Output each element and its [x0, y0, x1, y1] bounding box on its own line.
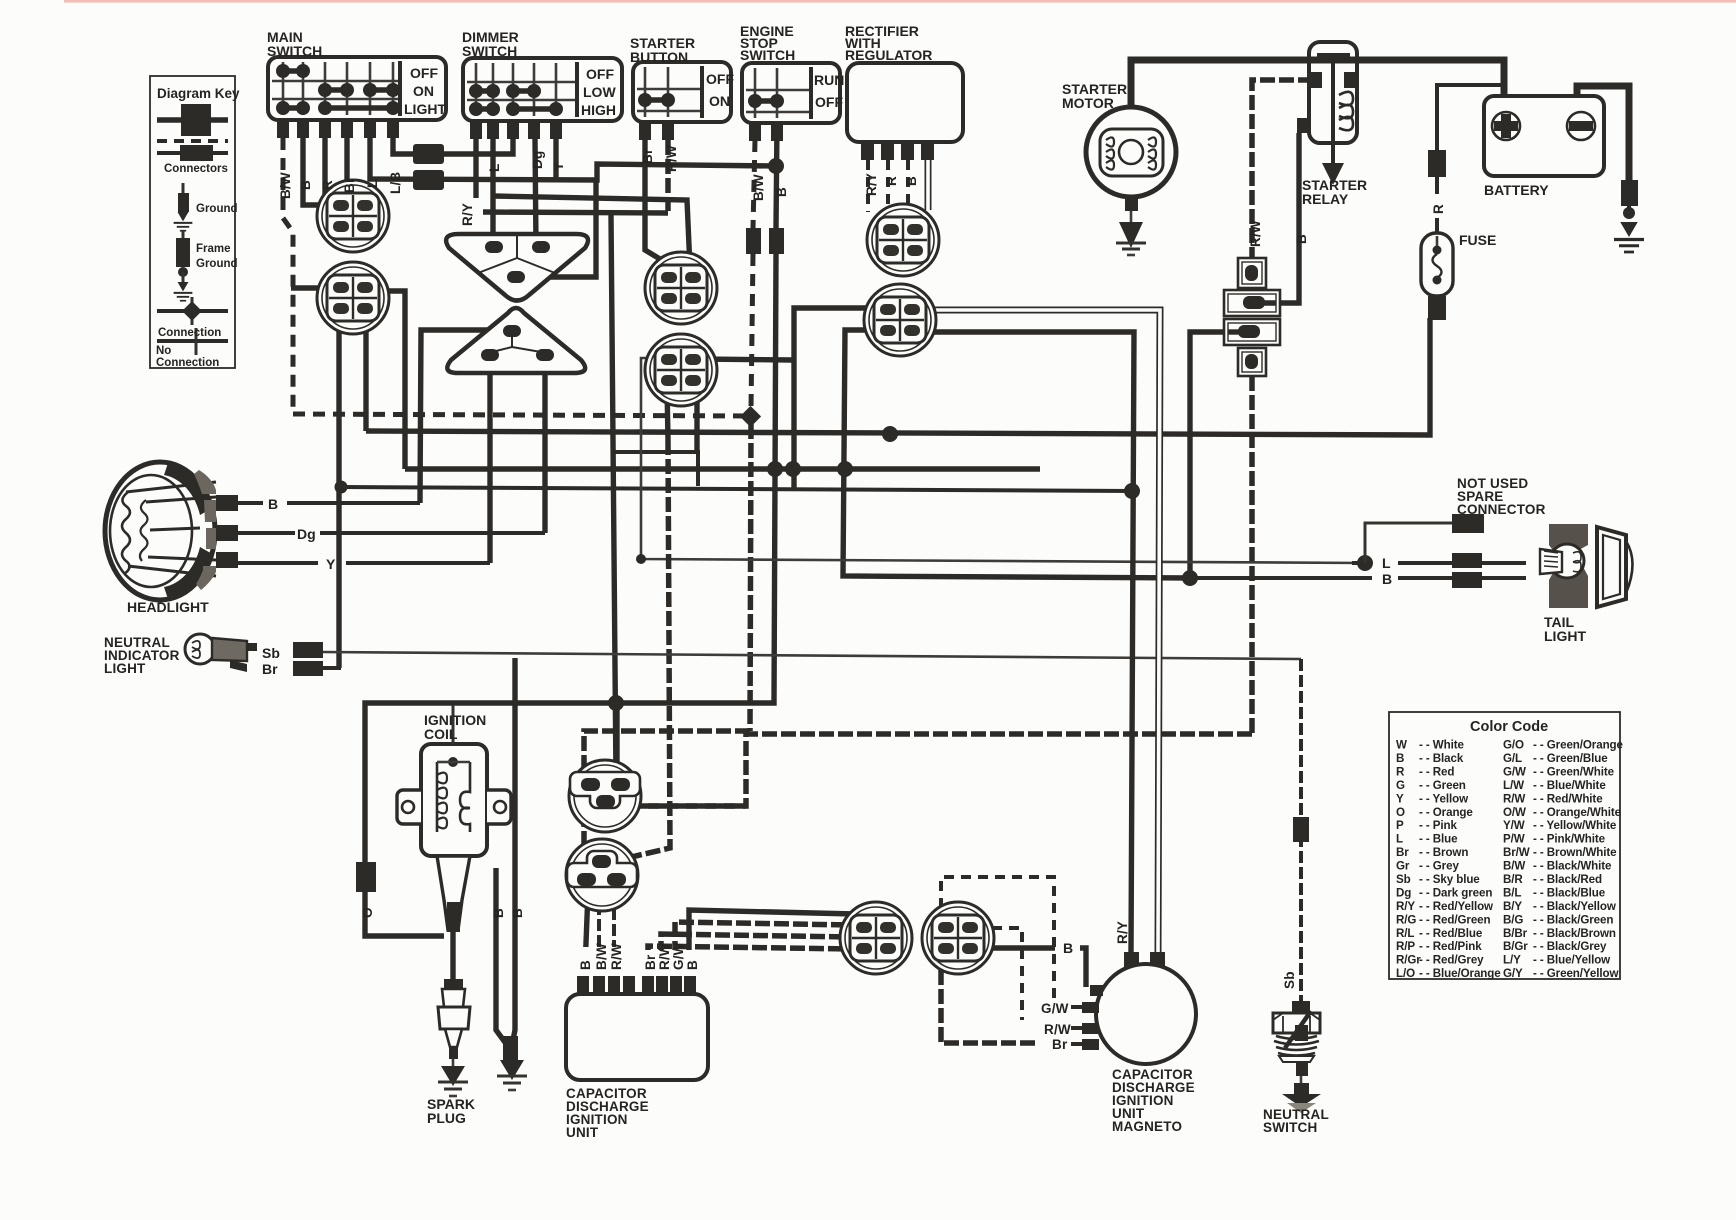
fuse lower connector	[1428, 296, 1446, 320]
svg-text:Y: Y	[551, 162, 566, 171]
wire magneto G/W dashed loop	[941, 877, 1054, 998]
svg-text:B/G: B/G	[1503, 913, 1523, 926]
svg-text:- - Green/Blue: - - Green/Blue	[1533, 752, 1608, 765]
inline connector L/B	[413, 144, 444, 164]
4-pin connector rectifier upper	[867, 204, 939, 276]
svg-text:O: O	[360, 907, 375, 918]
svg-text:- - Red: - - Red	[1419, 765, 1454, 778]
wire dimmer L down to triangle connector	[490, 139, 495, 247]
svg-text:Br: Br	[643, 954, 658, 970]
svg-text:Connection: Connection	[158, 327, 221, 339]
wire starter button R/W drop	[665, 140, 671, 211]
svg-text:- - Red/Yellow: - - Red/Yellow	[1419, 900, 1494, 913]
svg-text:- - Black/Grey: - - Black/Grey	[1533, 940, 1607, 953]
key frame ground symbol	[174, 230, 193, 301]
wire ignition coil O drop	[356, 862, 376, 892]
battery body	[1484, 96, 1604, 176]
wire spare connector feed	[1365, 523, 1452, 563]
magneto left stubs	[1082, 1002, 1099, 1013]
svg-text:Y/W: Y/W	[1503, 819, 1525, 832]
wire R/W dashed over and down to 3pin connector	[632, 734, 1252, 806]
4-pin connector center upper	[645, 252, 717, 324]
inline connector white top	[1150, 952, 1165, 968]
wire Br neutral light	[322, 666, 341, 670]
svg-text:- - Pink: - - Pink	[1419, 819, 1457, 832]
CDI stubs left group	[577, 976, 589, 994]
svg-text:B/Y: B/Y	[1503, 900, 1522, 913]
svg-text:R/W: R/W	[609, 943, 624, 970]
4-pin connector main switch upper	[317, 180, 389, 252]
wire 4pin BR riser to y452 jog	[694, 385, 699, 452]
junction dot L corner	[636, 554, 646, 564]
svg-text:HIGH: HIGH	[581, 102, 616, 118]
svg-text:SWITCH: SWITCH	[462, 43, 517, 59]
svg-text:L/B: L/B	[388, 172, 403, 194]
svg-text:R/Y: R/Y	[1115, 921, 1130, 944]
svg-text:- - Yellow: - - Yellow	[1419, 792, 1469, 805]
wire rectifier conn BL to tail B	[843, 330, 1190, 578]
inline connector R	[1428, 150, 1446, 177]
4-pin connector magneto right	[922, 902, 994, 974]
connector tab R/W lower	[1238, 348, 1266, 376]
wire B/W hatched over to CDI drop	[584, 731, 750, 858]
rectifier stub B	[906, 160, 910, 212]
svg-text:R: R	[1396, 765, 1405, 778]
wire L/B continue to dimmer common stub	[444, 139, 513, 154]
svg-text:Br: Br	[342, 177, 357, 193]
svg-text:- - Red/Green: - - Red/Green	[1419, 913, 1491, 926]
svg-text:B/Br: B/Br	[1503, 927, 1528, 940]
inline connector B	[769, 228, 784, 254]
inline connector B ground	[503, 1036, 518, 1060]
wire battery feed top	[1131, 60, 1504, 108]
rectifier stub R	[886, 160, 890, 212]
key no-connection symbol	[157, 328, 228, 355]
wire B/W branch to 4-pin connector	[291, 285, 336, 290]
neutral bulb connector tabs	[293, 642, 323, 658]
svg-text:Br/W: Br/W	[1503, 846, 1530, 859]
wire y433 main bus	[363, 310, 368, 431]
svg-text:- - Yellow/White: - - Yellow/White	[1533, 819, 1617, 832]
wire B down to ignition coil run	[365, 254, 776, 936]
svg-text:UNIT: UNIT	[566, 1125, 599, 1140]
wire B/W dashed to diamond	[751, 254, 753, 409]
svg-text:G: G	[1396, 779, 1405, 792]
wire main L inline connector	[413, 170, 444, 190]
svg-text:- - Green/Yellow: - - Green/Yellow	[1533, 967, 1619, 980]
svg-text:- - Black/Red: - - Black/Red	[1533, 873, 1602, 886]
svg-text:Ground: Ground	[196, 258, 238, 270]
wire B second ground	[512, 658, 515, 1060]
dimmer switch body	[463, 58, 622, 139]
svg-text:SWITCH: SWITCH	[1263, 1120, 1317, 1135]
svg-text:- - Orange/White: - - Orange/White	[1533, 806, 1622, 819]
svg-text:Br: Br	[1052, 1037, 1068, 1052]
svg-text:MOTOR: MOTOR	[1062, 95, 1114, 111]
battery plus terminal	[1492, 112, 1520, 140]
starter motor circle	[1086, 107, 1176, 255]
svg-text:L: L	[365, 180, 380, 188]
inline connector R/Y top	[1124, 952, 1139, 968]
svg-text:R: R	[884, 176, 899, 186]
svg-text:R/Gr: R/Gr	[1396, 954, 1421, 967]
svg-text:Sb: Sb	[1282, 971, 1297, 989]
svg-text:- - Grey: - - Grey	[1419, 860, 1459, 873]
wire coil B ground left	[496, 868, 507, 1060]
svg-text:R/P: R/P	[1396, 940, 1415, 953]
svg-text:L: L	[1396, 833, 1403, 846]
svg-text:O: O	[1396, 806, 1405, 819]
wire dimmer Dg down to triangle connector	[535, 139, 536, 247]
junction dot y487 left	[335, 481, 348, 494]
wire B/W dashed below diamond	[750, 424, 751, 731]
wire 3pin1 bottom hatched east	[629, 803, 746, 809]
wire B main switch to connector	[303, 138, 336, 205]
svg-text:B/W: B/W	[278, 172, 293, 199]
starter relay body	[1297, 42, 1357, 185]
svg-text:G/O: G/O	[1503, 739, 1524, 752]
CDI magneto circle	[1082, 964, 1196, 1064]
wire L/B main switch to dimmer common	[393, 138, 414, 154]
wire 4pin TR east	[697, 359, 793, 360]
svg-text:HEADLIGHT: HEADLIGHT	[127, 599, 209, 615]
svg-text:Y: Y	[1396, 792, 1404, 805]
wire engine stop B down	[776, 123, 777, 228]
wire starter button Br to 4pin connector	[645, 140, 665, 270]
4-pin connector center lower	[645, 334, 717, 406]
svg-text:- - Brown: - - Brown	[1419, 846, 1468, 859]
engine stop OFF contacts	[748, 94, 784, 108]
wire battery minus to ground	[1577, 86, 1629, 180]
svg-text:G/W: G/W	[671, 942, 686, 970]
svg-text:OFF: OFF	[815, 94, 843, 110]
svg-text:Color Code: Color Code	[1470, 719, 1548, 735]
svg-text:R/Y: R/Y	[460, 203, 475, 226]
wire dimmer Y stub to L run	[553, 139, 558, 178]
svg-text:Br: Br	[262, 661, 278, 677]
wire connector2 to tail B riser	[1190, 332, 1228, 578]
wire R to fuse	[1435, 177, 1439, 194]
svg-text:- - Dark green: - - Dark green	[1419, 887, 1492, 900]
main switch OFF contacts	[276, 64, 310, 78]
svg-text:- - White: - - White	[1419, 739, 1464, 752]
svg-text:L: L	[1382, 555, 1391, 571]
svg-text:Dg: Dg	[530, 151, 545, 169]
engine stop stubs	[749, 123, 783, 141]
spark plug	[438, 979, 470, 1096]
svg-text:L: L	[487, 164, 502, 172]
starter button ON contacts	[638, 93, 675, 107]
svg-text:Sb: Sb	[1396, 873, 1411, 886]
svg-text:B: B	[268, 496, 278, 512]
svg-text:B: B	[578, 960, 593, 970]
svg-text:- - Black/Yellow: - - Black/Yellow	[1533, 900, 1617, 913]
wire tail B continue	[1190, 576, 1372, 580]
dimmer LOW contacts	[469, 84, 541, 98]
starter relay arrow	[1331, 118, 1335, 165]
svg-text:P: P	[1396, 819, 1404, 832]
svg-text:- - Green/White: - - Green/White	[1533, 765, 1615, 778]
rectifier white wire to connector	[925, 160, 932, 210]
svg-text:MAGNETO: MAGNETO	[1112, 1119, 1182, 1134]
svg-text:ON: ON	[413, 83, 434, 99]
svg-text:- - Red/White: - - Red/White	[1533, 792, 1603, 805]
svg-text:- - Blue/White: - - Blue/White	[1533, 779, 1606, 792]
svg-text:B: B	[1294, 234, 1309, 244]
svg-text:- - Red/Pink: - - Red/Pink	[1419, 940, 1482, 953]
svg-text:B/R: B/R	[1503, 873, 1523, 886]
3-pin triangle connector upper (point down)	[446, 234, 588, 301]
wire magneto R/W dashed loop	[975, 928, 1022, 1020]
wire magneto B	[975, 945, 1055, 950]
svg-text:R/W: R/W	[1044, 1022, 1071, 1037]
wire headlight Dg horizontal	[237, 531, 295, 535]
inline connector battery ground	[1621, 180, 1638, 206]
svg-text:RUN: RUN	[814, 72, 844, 88]
wire CDI Br hatched	[648, 946, 852, 994]
4-pin connector rectifier lower	[864, 284, 936, 356]
svg-text:Connectors: Connectors	[164, 163, 228, 175]
headlight stipple shading	[194, 470, 216, 494]
svg-text:LIGHT: LIGHT	[1544, 628, 1586, 644]
wire Br main switch into connector	[344, 138, 349, 182]
svg-text:R/W: R/W	[1248, 220, 1263, 247]
tail light lens	[1597, 527, 1626, 607]
wire Sb neutral light run	[322, 652, 1301, 659]
label gap CDI left	[576, 947, 637, 976]
CDI stubs right group	[642, 976, 654, 994]
4-pin connector magneto left	[840, 902, 912, 974]
wire tail B label gap and connector	[1398, 576, 1526, 580]
svg-text:BATTERY: BATTERY	[1484, 182, 1549, 198]
ignition coil cone	[437, 856, 470, 930]
svg-text:G/W: G/W	[1041, 1001, 1069, 1016]
inline connector tail L	[1452, 553, 1482, 568]
svg-text:L/Y: L/Y	[1503, 954, 1521, 967]
wire triangle lower top pin to headlight B riser	[420, 330, 505, 503]
svg-text:B: B	[510, 908, 525, 918]
second B ground	[497, 1060, 527, 1090]
svg-text:COIL: COIL	[424, 726, 458, 742]
connector tab R/W upper	[1238, 258, 1266, 288]
3-pin round connector lower	[566, 839, 638, 911]
wire engine stop B/W dashed down	[753, 140, 755, 228]
engine stop switch body	[742, 63, 840, 141]
headlight drawing	[105, 462, 238, 600]
svg-text:OFF: OFF	[410, 65, 438, 81]
svg-text:B: B	[904, 176, 919, 186]
svg-text:R/G: R/G	[1396, 913, 1416, 926]
main switch LIGHT contacts	[276, 101, 400, 115]
svg-text:- - Red/Blue: - - Red/Blue	[1419, 927, 1483, 940]
svg-text:G/W: G/W	[1503, 765, 1526, 778]
svg-text:- - Pink/White: - - Pink/White	[1533, 833, 1606, 846]
battery ground symbol	[1614, 222, 1644, 252]
svg-text:B: B	[1063, 940, 1073, 956]
3-pin triangle connector lower (point up)	[447, 308, 585, 373]
wire R main switch to connector	[325, 138, 337, 226]
wire 3pin1 top feed	[614, 703, 619, 780]
wire triangle upper bottom pin jog	[523, 179, 596, 277]
wire relay B drop	[1280, 133, 1299, 303]
junction dot y469	[837, 461, 853, 477]
dimmer HIGH contacts	[469, 102, 563, 116]
CDI unit body	[566, 976, 708, 1080]
svg-text:LIGHT: LIGHT	[404, 101, 446, 117]
key connector symbol	[157, 104, 228, 161]
rectifier with regulator body	[847, 63, 963, 160]
svg-text:REGULATOR: REGULATOR	[845, 47, 932, 63]
spare connector body	[1452, 514, 1484, 533]
svg-text:Gr: Gr	[1396, 860, 1410, 873]
neutral switch	[1273, 1001, 1321, 1113]
svg-text:L/O: L/O	[1396, 967, 1415, 980]
wire L branch to 4pin connector	[493, 196, 690, 268]
svg-text:RELAY: RELAY	[1302, 191, 1349, 207]
wire conn2 TR over and down to y469 run	[372, 291, 405, 469]
svg-text:B: B	[298, 180, 313, 190]
junction dot R/Y y491	[1124, 483, 1140, 499]
svg-text:B: B	[1382, 571, 1392, 587]
svg-text:R/Y: R/Y	[1396, 900, 1415, 913]
wire L main switch jog to engine stop B junction	[370, 138, 775, 180]
svg-text:G/L: G/L	[1503, 752, 1522, 765]
ignition coil mounting ears	[397, 790, 421, 824]
svg-text:Dg: Dg	[1396, 887, 1411, 900]
wire CDI R/W hatched	[661, 934, 852, 994]
svg-text:B: B	[491, 908, 506, 918]
key ground symbol	[174, 183, 193, 231]
key connection symbol	[157, 297, 228, 325]
svg-text:- - Green/Orange: - - Green/Orange	[1533, 739, 1624, 752]
svg-text:- - Blue/Yellow: - - Blue/Yellow	[1533, 954, 1611, 967]
wire headlight B horizontal	[237, 501, 263, 505]
ignition coil body	[397, 705, 511, 932]
wire headlight Y horizontal	[237, 561, 318, 565]
rectifier stubs	[861, 142, 874, 160]
svg-text:R: R	[320, 180, 335, 190]
4-pin connector main switch lower	[317, 262, 389, 334]
svg-text:No: No	[156, 345, 171, 357]
3-pin round connector upper	[569, 760, 641, 832]
wire y487 run	[341, 487, 1133, 491]
neutral indicator bulb	[185, 634, 323, 676]
junction dot tail B	[1182, 570, 1198, 586]
svg-text:Ground: Ground	[196, 203, 238, 215]
svg-text:SWITCH: SWITCH	[740, 47, 795, 63]
wire Sb vertical hatched	[1299, 659, 1303, 1003]
wire spark plug lead	[450, 930, 455, 979]
svg-text:- - Red/Grey: - - Red/Grey	[1419, 954, 1484, 967]
svg-text:LIGHT: LIGHT	[104, 661, 146, 676]
svg-text:B/Gr: B/Gr	[1503, 940, 1528, 953]
dimmer terminal stubs	[470, 121, 562, 139]
scan artifact: red line along top edge	[64, 0, 1736, 3]
svg-text:B/W: B/W	[594, 943, 609, 970]
svg-text:SWITCH: SWITCH	[267, 43, 322, 59]
wire CDI G/W hatched	[675, 922, 852, 994]
wire 4pin BL drop to 3pin area	[667, 387, 668, 440]
svg-text:- - Blue: - - Blue	[1419, 833, 1458, 846]
svg-text:B/L: B/L	[1503, 887, 1521, 900]
svg-text:OFF: OFF	[706, 71, 734, 87]
svg-text:R/Y: R/Y	[864, 173, 879, 196]
wire B/W dashed horizontal run to diamond junction	[293, 414, 750, 416]
main switch body	[268, 57, 446, 138]
wire R/Y dimmer stub	[473, 139, 478, 198]
wire rectifier conn TL to y487	[794, 308, 884, 489]
wire relay R/W dashed	[1252, 80, 1313, 258]
headlight terminals	[216, 495, 238, 511]
inline connector B/W	[746, 228, 761, 254]
wire 3pin2 R/W drop to CDI	[612, 892, 616, 994]
junction dot y469 at x793	[785, 461, 801, 477]
diagram key box	[150, 76, 235, 368]
wire R/W dashed below connectors	[1249, 376, 1255, 734]
color code table box	[1389, 712, 1620, 979]
svg-text:- - Orange: - - Orange	[1419, 806, 1473, 819]
connector wide B	[1224, 290, 1280, 316]
wire y469 run	[405, 466, 1040, 471]
svg-text:B/W: B/W	[751, 174, 766, 201]
junction dot on ignition coil feed	[608, 695, 624, 711]
svg-text:- - Black/Blue: - - Black/Blue	[1533, 887, 1606, 900]
svg-text:Br: Br	[1396, 846, 1409, 859]
svg-text:- - Black/Brown: - - Black/Brown	[1533, 927, 1616, 940]
wire R/Y to magneto	[918, 332, 1134, 952]
wire L label gap to tail	[1352, 561, 1372, 565]
svg-text:R/W: R/W	[657, 943, 672, 970]
wire white double line to magneto	[918, 310, 1160, 952]
inline connector tail B	[1452, 572, 1482, 588]
wire 3pin2 B drop to CDI	[584, 892, 588, 994]
junction dot B at y469	[767, 461, 783, 477]
rectifier stub R/Y	[866, 160, 870, 212]
headlight rim shading	[164, 463, 214, 515]
wire riser to CDI 3pin connector	[611, 215, 616, 778]
svg-text:O/W: O/W	[1503, 806, 1526, 819]
svg-text:LOW: LOW	[583, 84, 616, 100]
wire L tail light run	[641, 358, 1365, 563]
svg-text:W: W	[1396, 739, 1407, 752]
wire triangle lower left pin to Y line	[487, 373, 492, 563]
tail light	[1540, 524, 1633, 608]
junction dot L	[1357, 555, 1373, 571]
wire 3pin2 B/W drop to CDI	[597, 903, 601, 994]
svg-text:Connection: Connection	[156, 357, 219, 369]
svg-text:Dg: Dg	[297, 526, 316, 542]
main switch terminal stubs	[277, 120, 399, 138]
starter button stubs	[639, 122, 674, 140]
svg-text:- - Sky blue: - - Sky blue	[1419, 873, 1480, 886]
svg-text:ON: ON	[709, 93, 730, 109]
wire conn BL down to neutral Br	[336, 310, 341, 668]
headlight filament coil	[122, 492, 130, 574]
svg-text:R: R	[1431, 204, 1446, 214]
wire R/Y run to CDI riser	[483, 212, 668, 213]
wire U jog to y487 run	[613, 452, 698, 486]
svg-text:R/W: R/W	[1503, 792, 1525, 805]
svg-text:- - Green: - - Green	[1419, 779, 1466, 792]
svg-text:Diagram Key: Diagram Key	[157, 86, 240, 101]
svg-text:B: B	[685, 960, 700, 970]
wire triangle lower right pin to Dg line	[542, 373, 547, 533]
svg-text:R/W: R/W	[664, 145, 679, 172]
battery minus terminal	[1567, 112, 1595, 140]
label gap CDI right	[641, 950, 703, 976]
svg-text:B: B	[774, 187, 789, 197]
svg-text:B/W: B/W	[1503, 860, 1525, 873]
